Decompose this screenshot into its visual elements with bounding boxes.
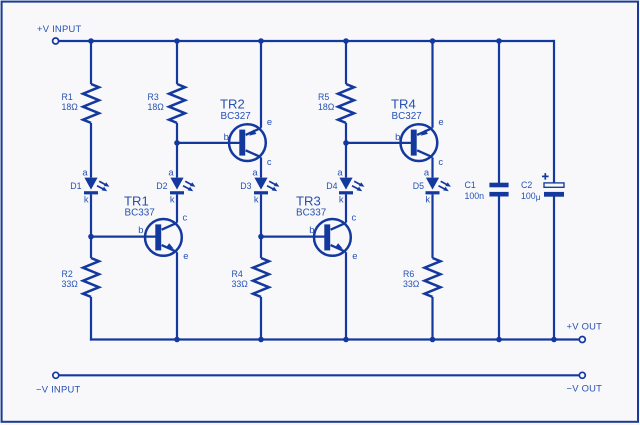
wire col G: rail corner to C2 [553, 40, 555, 183]
resistor R6 [425, 258, 441, 297]
wire top +V rail [59, 40, 554, 42]
wire col G: C2 to bottom rail [553, 196, 555, 339]
resistor R3 [169, 84, 185, 123]
LED D1 [84, 178, 97, 190]
svg-text:33Ω: 33Ω [232, 279, 249, 289]
svg-text:D5: D5 [413, 181, 424, 191]
svg-text:D1: D1 [70, 181, 81, 191]
node B base junction TR2 [174, 140, 180, 146]
resistor R2 [83, 258, 99, 297]
svg-text:100μ: 100μ [521, 191, 541, 202]
node bottom rail junction E [430, 337, 436, 343]
resistor R1 [83, 84, 99, 123]
svg-text:D3: D3 [240, 181, 251, 191]
node top rail junction E [430, 38, 436, 44]
svg-text:R4: R4 [232, 269, 243, 279]
wire bottom +V rail [90, 338, 579, 340]
svg-text:D4: D4 [326, 181, 337, 191]
svg-text:a: a [82, 166, 88, 177]
LED D5 [426, 178, 439, 190]
wire col D: rail to R5 [345, 41, 347, 84]
wire TR3 base [261, 236, 326, 238]
svg-text:a: a [337, 166, 343, 177]
node bottom rail junction B [174, 337, 180, 343]
svg-text:k: k [254, 193, 259, 204]
svg-text:TR4: TR4 [391, 97, 416, 112]
svg-text:18Ω: 18Ω [318, 102, 335, 112]
wire col C: R4 to bottom rail [260, 297, 262, 340]
wire col A: rail to R1 [90, 41, 92, 84]
svg-text:e: e [352, 250, 357, 261]
svg-text:+V OUT: +V OUT [567, 321, 603, 332]
svg-text:b: b [138, 224, 143, 235]
node top rail junction F [496, 38, 502, 44]
svg-text:TR3: TR3 [296, 193, 321, 208]
svg-text:k: k [170, 193, 175, 204]
transistor TR3 BC337 [314, 219, 351, 256]
wire TR1 base [91, 236, 157, 238]
wire TR1 emitter to bottom rail [176, 252, 178, 339]
node bottom rail junction D [343, 337, 349, 343]
wire TR1 collector to D2 [176, 194, 178, 222]
transistor TR1 BC337 [145, 219, 182, 256]
svg-text:c: c [183, 212, 188, 223]
svg-text:C1: C1 [465, 180, 476, 190]
svg-text:BC337: BC337 [125, 208, 155, 219]
node A base junction [88, 234, 94, 240]
terminal +V INPUT [53, 38, 59, 44]
wire col B: rail to R3 [176, 41, 178, 84]
svg-text:a: a [168, 166, 174, 177]
wire TR3 emitter to bottom rail [345, 252, 347, 339]
LED D2 [170, 178, 183, 190]
wire col B: R3 to D2 [176, 123, 178, 178]
wire TR4 base [346, 142, 412, 144]
svg-text:R5: R5 [318, 92, 329, 102]
svg-text:R2: R2 [62, 269, 73, 279]
wire col E: D5 to R6 [431, 194, 433, 258]
capacitor C1 [489, 183, 508, 188]
svg-text:R1: R1 [62, 92, 73, 102]
svg-text:c: c [267, 156, 272, 167]
capacitor C2 [544, 183, 564, 187]
svg-text:e: e [438, 116, 443, 127]
svg-text:100n: 100n [465, 191, 485, 201]
wire TR2 collector to D3 [260, 157, 262, 177]
svg-text:a: a [424, 166, 430, 177]
svg-text:BC337: BC337 [296, 208, 326, 219]
svg-text:R3: R3 [148, 92, 159, 102]
wire TR2 base [177, 142, 241, 144]
LED D4 [339, 178, 352, 190]
wire col A: R1 to D1 [90, 123, 92, 178]
svg-text:18Ω: 18Ω [148, 102, 165, 112]
svg-text:33Ω: 33Ω [62, 279, 79, 289]
node D base junction TR4 [343, 140, 349, 146]
resistor R4 [253, 258, 269, 297]
wire col F: C1 to bottom rail [498, 196, 500, 339]
svg-text:c: c [438, 156, 443, 167]
wire col C: D3 to R4 [260, 194, 262, 258]
svg-text:k: k [84, 193, 89, 204]
wire TR3 collector to D4 [345, 194, 347, 222]
wire TR4 emitter to top rail [431, 41, 433, 128]
node top rail junction C [258, 38, 264, 44]
svg-text:e: e [183, 250, 188, 261]
svg-text:TR2: TR2 [220, 97, 245, 112]
svg-text:a: a [252, 166, 258, 177]
node bottom rail junction G [551, 337, 557, 343]
svg-text:b: b [309, 224, 314, 235]
svg-text:−V INPUT: −V INPUT [36, 383, 80, 394]
wire col A: D1 to R2 [90, 194, 92, 258]
node bottom rail junction C [258, 337, 264, 343]
transistor TR4 BC327 [401, 124, 438, 161]
node top rail junction B [174, 38, 180, 44]
terminal +V OUT [579, 337, 585, 343]
svg-text:BC327: BC327 [221, 111, 251, 122]
svg-text:C2: C2 [521, 180, 532, 190]
svg-text:e: e [267, 116, 272, 127]
wire col E: R6 to bottom rail [431, 297, 433, 340]
svg-text:b: b [395, 131, 400, 142]
wire -V rail [59, 374, 579, 376]
wire col F: rail to C1 [498, 41, 500, 183]
node top rail junction D [343, 38, 349, 44]
terminal -V INPUT [53, 372, 59, 378]
svg-text:k: k [339, 193, 344, 204]
capacitor C2 polarity + [542, 175, 549, 177]
svg-text:c: c [352, 212, 357, 223]
LED D3 [254, 178, 267, 190]
resistor R5 [338, 84, 354, 123]
svg-text:−V OUT: −V OUT [567, 383, 603, 394]
svg-text:R6: R6 [403, 269, 414, 279]
svg-text:33Ω: 33Ω [403, 279, 420, 289]
node C base junction TR3 [258, 234, 264, 240]
wire TR4 collector to D5 [431, 157, 433, 177]
svg-text:18Ω: 18Ω [62, 102, 79, 112]
svg-text:+V INPUT: +V INPUT [37, 23, 81, 34]
wire TR2 emitter to top rail [260, 41, 262, 128]
transistor TR2 BC327 [229, 124, 266, 161]
wire col A: R2 to bottom rail [90, 297, 92, 341]
svg-text:k: k [425, 193, 430, 204]
wire col D: R5 to D4 [345, 123, 347, 178]
terminal -V OUT [579, 372, 585, 378]
node top rail junction A [88, 38, 94, 44]
svg-text:D2: D2 [156, 181, 167, 191]
node bottom rail junction F [496, 337, 502, 343]
svg-text:b: b [224, 131, 229, 142]
svg-text:TR1: TR1 [124, 193, 149, 208]
svg-text:BC327: BC327 [392, 111, 422, 122]
